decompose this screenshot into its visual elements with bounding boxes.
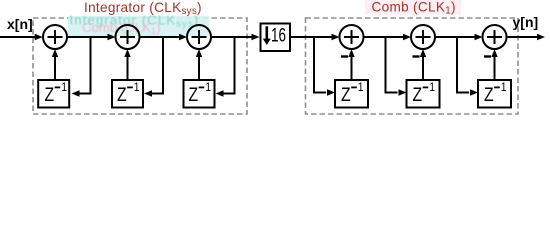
wire: Z5 up into B2 (minus input) — [420, 49, 426, 79]
decimator block (down-arrow 16) — [261, 24, 291, 52]
wire: B2 to B3 — [435, 34, 483, 40]
wire: decimator to comb adder B1 — [291, 34, 340, 40]
wire: tap down into Z5 — [386, 37, 407, 96]
svg-text:16: 16 — [271, 24, 286, 46]
svg-text:Z: Z — [45, 85, 55, 106]
wire: B3 to output — [507, 34, 546, 40]
wire: Z3 up into A3 — [196, 49, 202, 79]
svg-text:Z: Z — [484, 85, 494, 106]
wire: B1 to B2 — [364, 34, 412, 40]
svg-text:Z: Z — [189, 85, 199, 106]
wire: A1 output tap down into Z1 — [72, 37, 91, 97]
adder A2 — [116, 25, 140, 49]
minus sign at B1 — [341, 55, 348, 57]
selection-highlight wash over integrator area — [68, 16, 209, 36]
highlight wash behind Comb title — [365, 0, 461, 15]
adder B3 — [483, 25, 507, 49]
wire: A1 to A2 — [67, 34, 116, 40]
wire: A3 output tap down into Z3 — [216, 37, 235, 97]
adder B1 — [340, 25, 364, 49]
svg-text:Z: Z — [341, 85, 351, 106]
svg-text:1: 1 — [205, 82, 211, 94]
svg-text:x[n]: x[n] — [7, 16, 33, 32]
minus sign at B2 — [413, 55, 420, 57]
wire: Z4 up into B1 (minus input) — [348, 49, 354, 79]
minus sign at B3 — [484, 55, 491, 57]
wire: Z6 up into B3 (minus input) — [491, 49, 497, 79]
integrator dashed box — [33, 18, 247, 114]
wire: Z2 up into A2 — [124, 49, 130, 79]
delay Z1 (integrator stage 1) — [38, 80, 69, 108]
adder A1 — [43, 25, 67, 49]
wire: tap down into Z4 — [314, 37, 335, 96]
svg-text:1: 1 — [134, 82, 140, 94]
delay Z2 (integrator stage 2) — [112, 80, 143, 108]
svg-text:1: 1 — [429, 82, 435, 94]
wire: A2 to A3 — [140, 34, 188, 40]
delay Z3 (integrator stage 3) — [184, 80, 215, 108]
wire: input into adder A1 — [0, 34, 43, 40]
svg-text:Z: Z — [413, 85, 423, 106]
delay Z6 (comb stage 3) — [478, 80, 511, 108]
svg-text:1: 1 — [61, 82, 67, 94]
svg-text:Comb (CLK1): Comb (CLK1) — [82, 20, 161, 37]
wire: A2 output tap down into Z2 — [144, 37, 163, 97]
delay Z4 (comb stage 1) — [335, 80, 368, 108]
svg-text:y[n]: y[n] — [513, 14, 539, 30]
comb dashed box — [306, 18, 519, 114]
svg-text:1: 1 — [501, 82, 507, 94]
svg-text:1: 1 — [358, 82, 364, 94]
wire: A3 to decimator — [211, 34, 260, 40]
wire: Z1 up into A1 — [52, 49, 58, 79]
adder A3 — [187, 25, 211, 49]
svg-text:Z: Z — [117, 85, 127, 106]
delay Z5 (comb stage 2) — [407, 80, 440, 108]
wire: tap down into Z6 — [457, 37, 478, 96]
adder B2 — [411, 25, 435, 49]
svg-text:Comb (CLK1): Comb (CLK1) — [372, 0, 456, 17]
